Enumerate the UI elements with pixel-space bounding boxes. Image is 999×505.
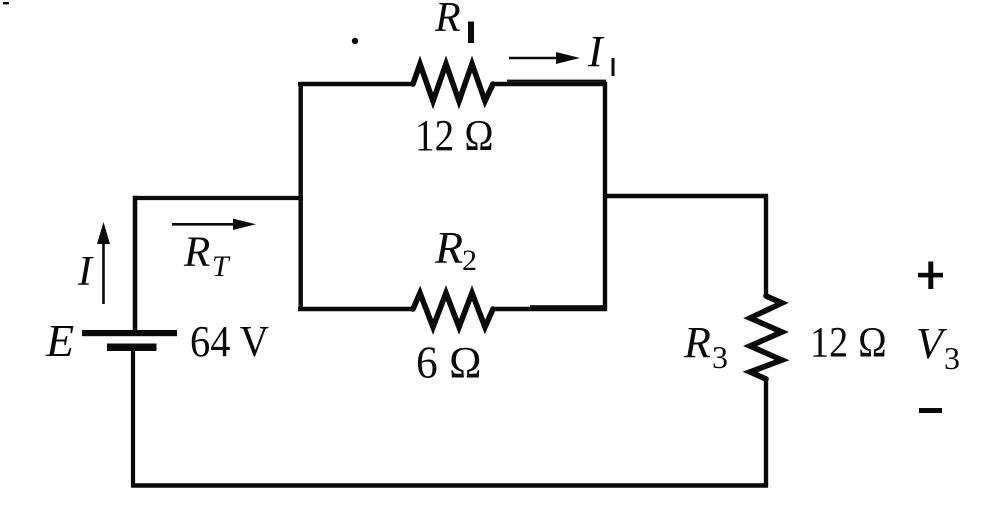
- wire: top wire from battery positive to parallel network: [133, 196, 303, 200]
- wire: right vertical of parallel section (node B): [603, 82, 607, 311]
- svg-text:R: R: [434, 0, 461, 41]
- resistor R3 vertical zigzag: [750, 296, 782, 379]
- svg-text:T: T: [212, 250, 231, 283]
- svg-text:12 Ω: 12 Ω: [415, 111, 494, 160]
- wire: R3 branch lower vertical to bottom wire: [764, 377, 768, 487]
- wire: left vertical of parallel section (node A): [299, 82, 303, 311]
- stray scan mark top-left corner: [3, 2, 9, 4]
- wire: left vertical from top wire down to battery top plate: [133, 196, 138, 333]
- current arrow I (upward): [102, 240, 105, 304]
- svg-text:2: 2: [462, 244, 477, 277]
- svg-text:R: R: [434, 222, 463, 273]
- svg-text:E: E: [45, 315, 74, 366]
- svg-text:3: 3: [712, 339, 728, 375]
- wire: middle branch left segment to R2: [298, 307, 414, 312]
- wire: R3 branch upper vertical: [764, 194, 768, 297]
- svg-text:I: I: [587, 27, 605, 76]
- arrow R_T (rightward): [172, 223, 240, 226]
- battery E 64 V: long positive plate: [82, 330, 177, 336]
- svg-text:12 Ω: 12 Ω: [810, 320, 887, 367]
- resistor R1 zigzag: [413, 64, 493, 101]
- polarity plus sign for V3: [918, 273, 943, 278]
- wire: bottom return wire: [132, 483, 769, 488]
- current arrow I1 (rightward): [509, 57, 557, 59]
- wire: left vertical from battery negative plate down to bottom wire: [131, 350, 135, 488]
- polarity minus sign for V3: [919, 408, 942, 413]
- wire: middle branch right segment from R2: [492, 307, 607, 312]
- battery E 64 V: short negative plate: [107, 344, 157, 352]
- wire: horizontal wire from node B to R3 branch: [603, 194, 768, 198]
- stray scan dot near top: [352, 38, 358, 44]
- svg-text:I: I: [77, 249, 94, 295]
- resistor R2 zigzag: [413, 293, 493, 327]
- wire: top branch right segment from R1: [492, 82, 607, 87]
- wire: top branch left segment to R1: [298, 82, 414, 87]
- svg-text:6 Ω: 6 Ω: [416, 338, 482, 388]
- svg-text:3: 3: [944, 340, 960, 376]
- svg-text:R: R: [683, 318, 711, 367]
- svg-text:R: R: [183, 229, 210, 276]
- svg-text:64 V: 64 V: [190, 317, 269, 366]
